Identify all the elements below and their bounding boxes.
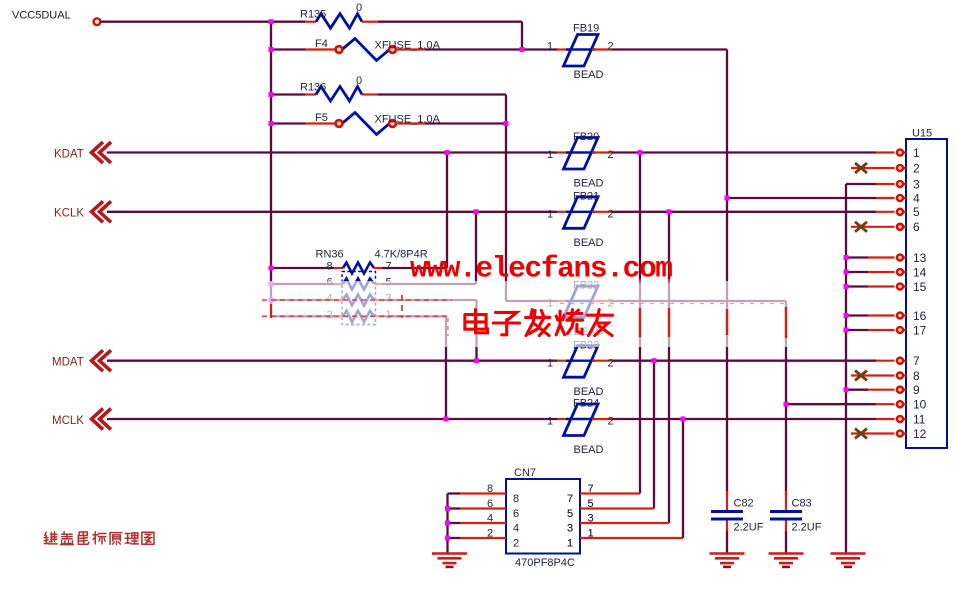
svg-text:XFUSE_1.0A: XFUSE_1.0A bbox=[375, 40, 441, 52]
svg-text:KDAT: KDAT bbox=[54, 149, 84, 161]
wire U15 pin15 to gnd rail bbox=[846, 285, 868, 287]
wire MDAT to FB23 bbox=[107, 360, 557, 362]
svg-text:8: 8 bbox=[327, 261, 333, 273]
svg-text:1: 1 bbox=[547, 208, 553, 220]
wire FB23 out to U15 pin7 bbox=[612, 360, 876, 362]
title char 鼠 bbox=[78, 532, 89, 544]
svg-text:www.elecfans.com: www.elecfans.com bbox=[410, 252, 673, 286]
svg-text:3: 3 bbox=[567, 523, 573, 535]
svg-text:FB20: FB20 bbox=[573, 131, 599, 143]
svg-text:BEAD: BEAD bbox=[574, 237, 604, 249]
ferrite bead FB24 bbox=[564, 404, 599, 436]
svg-text:7: 7 bbox=[386, 261, 392, 273]
lead CN7 pin7 to x640 bbox=[580, 492, 640, 494]
lead U15 pin1 bbox=[876, 151, 895, 153]
selection dash overlay horizontal FB22 row faint bbox=[560, 303, 788, 305]
junction VCC/R136 bbox=[269, 92, 274, 97]
lead C82 pin1 bbox=[726, 491, 728, 511]
no-connect X pin 2 bbox=[855, 163, 867, 173]
pin circle U15 pin 14 bbox=[897, 269, 903, 275]
lead U15 pin14 bbox=[868, 271, 895, 273]
wire U15 pin14 to gnd rail bbox=[846, 271, 868, 273]
pin circle U15 pin 13 bbox=[897, 255, 903, 261]
pin circle U15 pin 8 bbox=[897, 373, 903, 379]
wire KCLK cap drop x669 to CN7 bbox=[668, 212, 670, 523]
selection red overdraw vertical x271 bbox=[270, 304, 272, 318]
svg-text:5: 5 bbox=[567, 508, 573, 520]
port VCC5DUAL bbox=[94, 18, 101, 25]
lead U15 pin2 nc stub bbox=[851, 167, 895, 169]
wire FB24 out to U15 pin11 bbox=[612, 418, 876, 420]
selection dash overlay horizontal RN row 2-1 bbox=[262, 315, 448, 317]
junction VCC/RN36 pin8 bbox=[269, 266, 274, 271]
RN36 body outline dashed bbox=[342, 272, 376, 325]
svg-text:2: 2 bbox=[913, 161, 920, 175]
svg-text:1: 1 bbox=[567, 538, 573, 550]
svg-text:14: 14 bbox=[913, 265, 927, 279]
selection red overdraw vertical x786 bbox=[785, 307, 787, 338]
lead FB23 pin1 bbox=[557, 360, 570, 362]
wire KDAT cap drop x640 to CN7 bbox=[639, 153, 641, 494]
lead F4 pin1 bbox=[305, 48, 336, 50]
svg-text:MDAT: MDAT bbox=[52, 357, 84, 369]
no-connect X pin 8 bbox=[855, 371, 867, 381]
lead U15 pin5 bbox=[876, 211, 895, 213]
wire U15 pin3 to gnd rail bbox=[846, 183, 876, 185]
svg-text:FB21: FB21 bbox=[573, 190, 599, 202]
svg-text:12: 12 bbox=[913, 427, 927, 441]
pin stub U15 pin 14 bbox=[903, 271, 907, 273]
junction KDAT cap bbox=[638, 150, 643, 155]
svg-text:3: 3 bbox=[913, 177, 920, 191]
wire RN36 pin7 to KDAT drop bbox=[382, 267, 447, 269]
lead U15 pin16 bbox=[868, 314, 895, 316]
wire VCC KB to U15 pin4 bbox=[727, 197, 876, 199]
lead FB19 pin1 bbox=[557, 48, 570, 50]
svg-text:F5: F5 bbox=[315, 112, 328, 124]
lead CN7 pin3 to x669 bbox=[580, 522, 669, 524]
svg-text:470PF8P4C: 470PF8P4C bbox=[515, 557, 575, 569]
svg-text:KCLK: KCLK bbox=[54, 208, 84, 220]
junction VCC/RN36 pin6 bbox=[269, 282, 274, 287]
svg-text:1: 1 bbox=[913, 146, 920, 160]
selection dash tick x669 top bbox=[668, 279, 670, 283]
pin stub U15 pin 17 bbox=[903, 329, 907, 331]
wire VCC KB vertical x727 to C82 bbox=[726, 50, 728, 495]
wire U15 pin9 to gnd rail bbox=[846, 389, 868, 391]
selection red overdraw vertical x727 bbox=[726, 309, 728, 335]
lead RN36 pin 6 bbox=[334, 283, 343, 285]
svg-text:5: 5 bbox=[913, 205, 920, 219]
lead FB21 pin2 bbox=[592, 211, 612, 213]
no-connect X pin 6 bbox=[855, 222, 867, 232]
ferrite bead FB23 bbox=[564, 346, 599, 378]
wire RN36 pin5 to KCLK drop bbox=[382, 283, 476, 285]
port MDAT bbox=[92, 350, 112, 371]
junction KCLK cap bbox=[667, 209, 672, 214]
lead U15 pin11 bbox=[876, 418, 895, 420]
resistor RN36 element 8-7 bbox=[343, 263, 374, 274]
lead U15 pin10 bbox=[876, 403, 895, 405]
capacitor network CN7 body bbox=[506, 479, 580, 554]
lead RN36 pin 5 bbox=[374, 283, 382, 285]
svg-text:BEAD: BEAD bbox=[574, 386, 604, 398]
pin circle U15 pin 10 bbox=[897, 401, 903, 407]
svg-text:8: 8 bbox=[513, 493, 519, 505]
wire C82 to ground bbox=[726, 531, 728, 554]
lead RN36 pin 8 bbox=[334, 267, 343, 269]
wire U15 pin16 to gnd rail bbox=[846, 314, 868, 316]
svg-text:9: 9 bbox=[913, 383, 920, 397]
lead FB23 pin2 bbox=[592, 360, 612, 362]
lead FB24 pin2 bbox=[592, 418, 612, 420]
ground CN7 bbox=[432, 554, 467, 567]
lead C82 pin2 bbox=[726, 521, 728, 532]
wire to F5 bbox=[271, 122, 305, 124]
ground C82 bbox=[710, 554, 745, 567]
svg-text:BEAD: BEAD bbox=[574, 444, 604, 456]
svg-text:13: 13 bbox=[913, 251, 927, 265]
pin circle U15 pin 5 bbox=[897, 209, 903, 215]
wire FB21 out to U15 pin5 bbox=[612, 211, 876, 213]
lead U15 pin7 bbox=[876, 360, 895, 362]
pin stub U15 pin 4 bbox=[903, 197, 907, 199]
wire RN36 pin3 drop to MDAT bbox=[475, 300, 477, 361]
lead U15 pin17 bbox=[868, 329, 895, 331]
junction VCC/RN36 pin4 bbox=[269, 298, 274, 303]
svg-text:F4: F4 bbox=[315, 38, 328, 50]
svg-text:2: 2 bbox=[608, 208, 614, 220]
port MCLK bbox=[92, 409, 112, 430]
resistor R135 bbox=[316, 14, 362, 29]
ferrite bead FB21 bbox=[564, 197, 599, 229]
junction R135/F4 out bbox=[520, 47, 525, 52]
wire FB22 out bbox=[612, 300, 786, 302]
lead F5 pin2 bbox=[396, 122, 425, 124]
svg-text:16: 16 bbox=[913, 309, 927, 323]
lead FB24 pin1 bbox=[557, 418, 570, 420]
watermark char 烧 bbox=[556, 310, 582, 335]
junction gnd pin9 bbox=[844, 387, 849, 392]
junction KDAT pullup bbox=[445, 150, 450, 155]
lead FB19 pin2 bbox=[592, 48, 612, 50]
wire FB20 out to U15 pin1 bbox=[612, 151, 876, 153]
svg-text:6: 6 bbox=[913, 220, 920, 234]
lead RN36 pin 4 bbox=[334, 299, 343, 301]
svg-text:C83: C83 bbox=[792, 498, 812, 510]
lead C83 pin1 bbox=[785, 491, 787, 511]
wire CN7 pin6 corner bbox=[448, 507, 461, 509]
svg-text:1: 1 bbox=[547, 416, 553, 428]
pin stub U15 pin 1 bbox=[903, 151, 907, 153]
svg-text:R136: R136 bbox=[300, 82, 326, 94]
pin circle U15 pin 6 bbox=[897, 224, 903, 230]
ground U15 shield rail bbox=[831, 554, 866, 567]
junction KCLK pullup bbox=[474, 209, 479, 214]
lead R135 pin1 bbox=[305, 21, 316, 23]
junction gnd pin13 bbox=[844, 255, 849, 260]
svg-text:6: 6 bbox=[513, 508, 519, 520]
junction VCC KB pin4 bbox=[725, 196, 730, 201]
wire mouse VCC to U15 pin10 bbox=[786, 403, 876, 405]
pin stub U15 pin 13 bbox=[903, 256, 907, 258]
ferrite bead FB19 bbox=[564, 35, 599, 67]
lead CN7 pin 6 bbox=[460, 507, 506, 509]
lead RN36 pin 3 bbox=[374, 299, 382, 301]
svg-text:2: 2 bbox=[608, 149, 614, 161]
title char 理 bbox=[125, 533, 138, 544]
junction VCC/R135 bbox=[269, 19, 274, 24]
wire RN36 row 8 left bbox=[271, 267, 334, 269]
junction VCC/F5 bbox=[269, 121, 274, 126]
svg-text:1: 1 bbox=[547, 149, 553, 161]
svg-text:0: 0 bbox=[356, 75, 362, 87]
wire to F4 bbox=[271, 48, 305, 50]
svg-text:RN36: RN36 bbox=[316, 249, 344, 261]
lead CN7 pin 8 bbox=[460, 492, 506, 494]
svg-text:U15: U15 bbox=[912, 128, 932, 140]
wire R136 out drop to FB22 x506 bbox=[505, 95, 507, 302]
wire R135 out drop to F4 net bbox=[521, 22, 523, 50]
lead U15 pin3 bbox=[876, 183, 895, 185]
pin stub U15 pin 11 bbox=[903, 418, 907, 420]
wire MDAT cap drop x654 to CN7 bbox=[653, 361, 655, 509]
svg-text:15: 15 bbox=[913, 280, 927, 294]
lead CN7 pin 4 bbox=[460, 522, 506, 524]
junction CN7 pin2 gnd bbox=[445, 536, 450, 541]
pin circle U15 pin 17 bbox=[897, 327, 903, 333]
wire RN36 row 4 left bbox=[271, 299, 334, 301]
pin stub U15 pin 2 bbox=[903, 167, 907, 169]
pin stub U15 pin 12 bbox=[903, 432, 907, 434]
pin stub U15 pin 8 bbox=[903, 374, 907, 376]
junction R136/F5 out bbox=[504, 121, 509, 126]
svg-text:7: 7 bbox=[567, 493, 573, 505]
junction gnd pin17 bbox=[844, 328, 849, 333]
watermark char 子 bbox=[493, 312, 519, 334]
title char 盘 bbox=[61, 532, 74, 545]
wire KDAT pullup drop x447 bbox=[446, 153, 448, 269]
svg-text:BEAD: BEAD bbox=[574, 178, 604, 190]
wire CN7 pin8 corner bbox=[448, 492, 461, 494]
wire CN7 pin2 corner bbox=[448, 537, 461, 539]
svg-text:1: 1 bbox=[547, 41, 553, 53]
lead C83 pin2 bbox=[785, 521, 787, 532]
lead R135 pin2 bbox=[362, 21, 378, 23]
watermark char 发 bbox=[526, 310, 550, 336]
svg-text:MCLK: MCLK bbox=[52, 415, 84, 427]
title char 图 bbox=[142, 532, 154, 544]
selection dash overlay horizontal RN row 4-3 bbox=[262, 299, 452, 301]
selection dash overlay vertical x448 faint bbox=[447, 318, 449, 336]
pin stub U15 pin 9 bbox=[903, 389, 907, 391]
svg-text:2: 2 bbox=[487, 528, 493, 540]
svg-text:R135: R135 bbox=[300, 9, 326, 21]
pin stub U15 pin 5 bbox=[903, 211, 907, 213]
wire VCC5DUAL to vertical rail bbox=[101, 21, 272, 23]
ferrite bead FB20 bbox=[564, 138, 599, 170]
junction mouse VCC pin10 bbox=[784, 402, 789, 407]
pin circle U15 pin 3 bbox=[897, 181, 903, 187]
wire RN36 pin1 drop to MCLK bbox=[445, 316, 447, 419]
svg-text:10: 10 bbox=[913, 398, 927, 412]
lead U15 pin15 bbox=[868, 285, 895, 287]
junction CN7 pin6 gnd bbox=[445, 506, 450, 511]
svg-text:2.2UF: 2.2UF bbox=[734, 522, 764, 534]
selection red overdraw vertical x640 bbox=[639, 308, 641, 337]
lead CN7 pin 2 bbox=[460, 537, 506, 539]
wire U15 pin13 to gnd rail bbox=[846, 256, 868, 258]
wire mouse VCC drop x786 to C83 bbox=[785, 301, 787, 495]
svg-text:FB24: FB24 bbox=[573, 398, 599, 410]
svg-text:0: 0 bbox=[356, 2, 362, 14]
pin circle U15 pin 1 bbox=[897, 150, 903, 156]
wire RN36 row 6 left bbox=[271, 283, 334, 285]
svg-text:2: 2 bbox=[608, 416, 614, 428]
resistor R136 bbox=[316, 87, 362, 102]
wire MCLK to FB24 bbox=[107, 418, 557, 420]
lead U15 pin4 bbox=[876, 197, 895, 199]
lead RN36 pin 7 bbox=[374, 267, 382, 269]
ferrite bead FB22 bbox=[564, 286, 599, 318]
svg-text:BEAD: BEAD bbox=[574, 69, 604, 81]
watermark char 电 bbox=[465, 310, 488, 333]
fuse F5 bbox=[336, 113, 396, 135]
capacitor C83 bbox=[770, 512, 802, 520]
wire gnd rail x846 bbox=[845, 184, 847, 554]
wire F5 out bbox=[425, 122, 506, 124]
pin stub U15 pin 6 bbox=[903, 226, 907, 228]
lead R136 pin2 bbox=[362, 93, 378, 95]
wire to R1 lead bbox=[271, 21, 305, 23]
svg-text:2: 2 bbox=[608, 41, 614, 53]
junction gnd pin15 bbox=[844, 284, 849, 289]
wire to FB22 pin1 bbox=[506, 300, 557, 302]
pin circle U15 pin 2 bbox=[897, 165, 903, 171]
wire RN36 pin3 right bbox=[382, 299, 477, 301]
port KDAT bbox=[92, 142, 112, 163]
wire R135 out bbox=[378, 21, 522, 23]
svg-text:4: 4 bbox=[913, 191, 920, 205]
lead FB22 pin1 bbox=[557, 300, 570, 302]
svg-text:7: 7 bbox=[913, 354, 920, 368]
resistor RN36 element 4-3 bbox=[343, 295, 374, 306]
wire R136 out bbox=[378, 93, 506, 95]
watermark char 友 bbox=[587, 310, 612, 336]
junction VCC/F4 bbox=[269, 47, 274, 52]
junction gnd pin14 bbox=[844, 270, 849, 275]
lead R136 pin1 bbox=[305, 93, 316, 95]
lead CN7 pin5 to x654 bbox=[580, 507, 654, 509]
pin circle U15 pin 4 bbox=[897, 195, 903, 201]
title char 原 bbox=[110, 533, 122, 545]
lead RN36 pin 2 bbox=[334, 315, 343, 317]
svg-text:6: 6 bbox=[487, 498, 493, 510]
pin circle U15 pin 11 bbox=[897, 416, 903, 422]
lead U15 pin8 nc stub bbox=[851, 374, 895, 376]
pin circle U15 pin 15 bbox=[897, 284, 903, 290]
svg-text:VCC5DUAL: VCC5DUAL bbox=[12, 10, 71, 22]
selection dash overlay vertical x402 bbox=[401, 295, 403, 318]
lead FB21 pin1 bbox=[557, 211, 570, 213]
resistor RN36 element 2-1 bbox=[343, 311, 374, 322]
resistor RN36 element 6-5 bbox=[343, 279, 374, 290]
svg-text:8: 8 bbox=[487, 483, 493, 495]
junction CN7 pin4 gnd bbox=[445, 521, 450, 526]
lead F5 pin1 bbox=[305, 122, 336, 124]
junction gnd pin16 bbox=[844, 313, 849, 318]
wire KCLK to FB21 bbox=[107, 211, 557, 213]
capacitor C82 bbox=[711, 512, 743, 520]
pin circle U15 pin 16 bbox=[897, 313, 903, 319]
svg-text:8: 8 bbox=[913, 369, 920, 383]
title char 键 bbox=[44, 532, 57, 544]
svg-text:4: 4 bbox=[513, 523, 519, 535]
lead F4 pin2 bbox=[396, 48, 425, 50]
svg-text:17: 17 bbox=[913, 323, 927, 337]
lead U15 pin9 bbox=[868, 389, 895, 391]
svg-text:CN7: CN7 bbox=[514, 467, 536, 479]
wire VCC vertical rail x271 bbox=[270, 22, 272, 317]
no-connect X pin 12 bbox=[855, 429, 867, 439]
selection red overdraw vertical x669 bbox=[668, 308, 670, 337]
svg-text:2: 2 bbox=[608, 357, 614, 369]
pin stub U15 pin 10 bbox=[903, 403, 907, 405]
wire CN7 pin4 corner bbox=[448, 522, 461, 524]
pin circle U15 pin 12 bbox=[897, 431, 903, 437]
svg-text:2: 2 bbox=[513, 538, 519, 550]
lead CN7 pin1 to x683 bbox=[580, 537, 683, 539]
pin stub U15 pin 7 bbox=[903, 360, 907, 362]
junction MCLK cap bbox=[681, 417, 686, 422]
lead RN36 pin 1 bbox=[374, 315, 382, 317]
lead U15 pin6 nc stub bbox=[851, 226, 895, 228]
fuse F4 bbox=[336, 39, 396, 61]
wire CN7 ground rail x447 bbox=[446, 494, 448, 554]
lead U15 pin12 nc stub bbox=[851, 432, 895, 434]
wire FB19 out bbox=[612, 48, 727, 50]
junction MCLK pullup bbox=[444, 417, 449, 422]
wire to R136 bbox=[271, 93, 305, 95]
wire KDAT to FB20 bbox=[107, 151, 557, 153]
svg-text:4: 4 bbox=[487, 513, 493, 525]
ground C83 bbox=[769, 554, 804, 567]
svg-text:11: 11 bbox=[913, 412, 926, 426]
watermark band overlay bbox=[256, 281, 802, 347]
pin circle U15 pin 7 bbox=[897, 358, 903, 364]
selection dash tick x640 top bbox=[639, 279, 641, 283]
wire C83 to ground bbox=[785, 531, 787, 554]
wire KCLK pullup drop x476 bbox=[475, 212, 477, 284]
svg-text:XFUSE_1.0A: XFUSE_1.0A bbox=[375, 114, 441, 126]
wire RN36 pin1 right bbox=[382, 315, 446, 317]
pin stub U15 pin 16 bbox=[903, 314, 907, 316]
svg-text:C82: C82 bbox=[734, 498, 754, 510]
connector U15 body bbox=[906, 139, 947, 448]
wire RN36 row 2 left bbox=[271, 315, 334, 317]
pin stub U15 pin 3 bbox=[903, 183, 907, 185]
pin circle U15 pin 9 bbox=[897, 387, 903, 393]
svg-text:1: 1 bbox=[547, 357, 553, 369]
lead U15 pin13 bbox=[868, 256, 895, 258]
title char 标 bbox=[93, 532, 106, 544]
svg-text:FB19: FB19 bbox=[573, 23, 599, 35]
junction MDAT pullup bbox=[474, 358, 479, 363]
wire U15 pin17 to gnd rail bbox=[846, 329, 868, 331]
svg-text:2.2UF: 2.2UF bbox=[792, 522, 822, 534]
lead FB20 pin2 bbox=[592, 151, 612, 153]
pin stub U15 pin 15 bbox=[903, 285, 907, 287]
